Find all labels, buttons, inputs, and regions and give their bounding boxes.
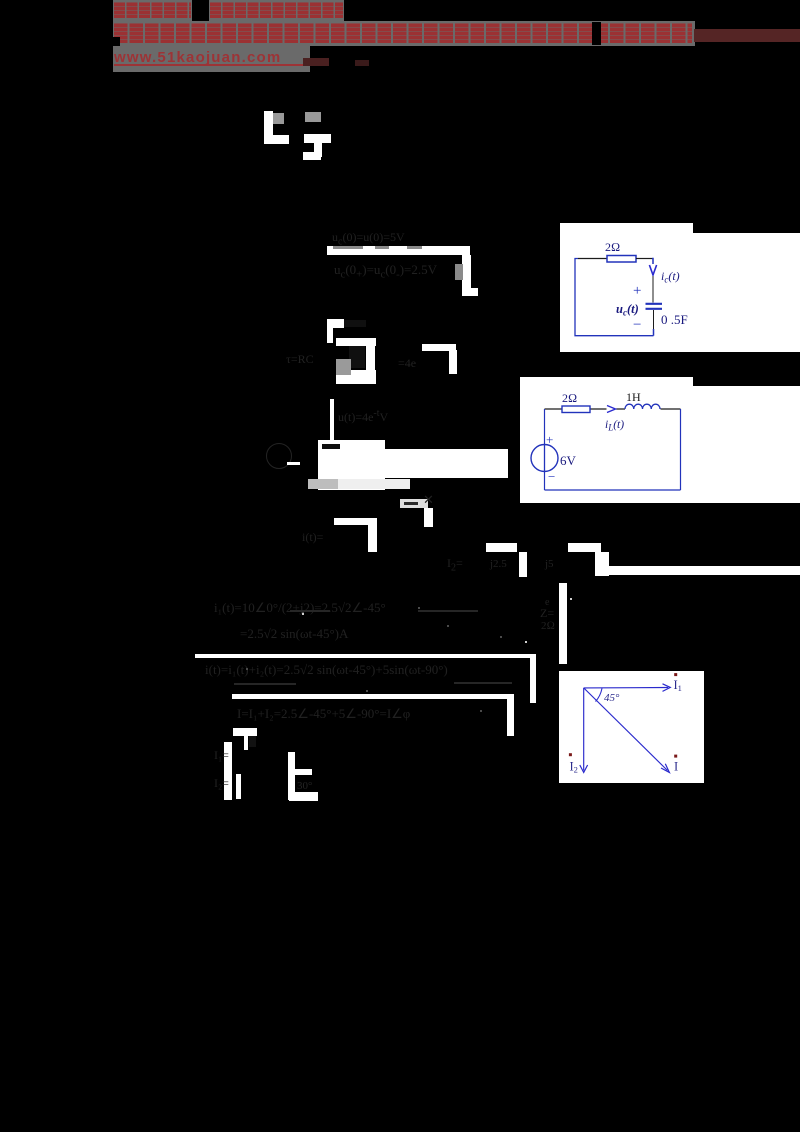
header highlight panel line3 (url) [113, 46, 310, 72]
white fragment W8 [334, 518, 377, 525]
ghost t=0 switch [400, 499, 428, 508]
figure 1 white background [560, 223, 800, 352]
wire left blue through source [544, 409, 546, 490]
label I with red dot [674, 755, 677, 758]
white fragment W13 line [232, 694, 514, 699]
ghost equation under W3 [334, 262, 437, 281]
wire right black segment [652, 276, 654, 303]
svg-text:+: + [546, 432, 553, 447]
current arrow [607, 406, 616, 413]
figure 2 white background [520, 377, 800, 503]
ghost I2 [447, 556, 463, 573]
header highlight panel line2 [113, 21, 695, 46]
svg-text:45°: 45° [604, 692, 620, 704]
ghost long equation row 2 [205, 662, 448, 678]
wire top black segments [545, 408, 681, 410]
angle arc 45 [596, 688, 603, 701]
white fragment W2 [305, 112, 321, 123]
ghost long equation row 3 [237, 706, 410, 722]
label I2 with red dot [569, 753, 572, 756]
white fragment W11 vertical bar [559, 583, 567, 664]
current arrow ic [649, 265, 656, 275]
maroon redacted band line2 [694, 29, 800, 42]
figure 2 top-right black notch [693, 377, 800, 386]
svg-text:uc(t): uc(t) [616, 302, 639, 318]
resistor R 2ohm [562, 406, 590, 413]
wire left+bottom blue loop [575, 259, 654, 336]
inductor L coil [625, 404, 660, 409]
white fragment W9 [486, 543, 517, 552]
wire right blue [680, 409, 682, 490]
phasor I diagonal arrow [584, 688, 668, 771]
white fragment W10 [568, 543, 601, 552]
ghost long equation row 1 [214, 600, 386, 616]
header highlight panel line1 run A [113, 0, 192, 21]
svg-text:iL(t): iL(t) [605, 419, 624, 433]
capacitor C plates [646, 304, 663, 309]
specks [302, 612, 304, 614]
svg-text:2Ω: 2Ω [562, 391, 577, 405]
white dash in ghost circle [287, 462, 300, 465]
svg-text:ic(t): ic(t) [661, 269, 680, 285]
resistor R 2ohm [607, 256, 636, 263]
phasor I2 vertical arrow [583, 688, 585, 771]
phasor I1 horizontal arrow [584, 687, 668, 689]
ghost tau [286, 352, 314, 367]
white fragment W7 big block [318, 440, 385, 490]
svg-text:2Ω: 2Ω [605, 240, 620, 254]
white fragment W5 [422, 344, 456, 351]
svg-text:I: I [674, 760, 678, 774]
svg-text:0 .5F: 0 .5F [661, 312, 688, 327]
figure 3 white background [559, 671, 704, 783]
wire below capacitor black [653, 310, 655, 329]
white fragment W3 bar+corner [327, 246, 470, 255]
svg-text:+: + [633, 283, 641, 299]
white fragment W4 [327, 319, 344, 328]
ghost source circle [266, 443, 292, 469]
white fragment W1 L-shape [264, 111, 273, 144]
white fragment W6 vertical [330, 399, 335, 442]
wire top black segment right [636, 258, 652, 260]
wire top black segment left [578, 258, 607, 260]
white fragment W12 line [195, 654, 535, 658]
label I1 with red dot [674, 673, 677, 676]
voltage source circle 6V [531, 445, 558, 472]
svg-text:−: − [633, 317, 641, 333]
wire bottom blue [545, 489, 681, 491]
wire top-right corner blue [652, 259, 653, 265]
white fragments W14 group [233, 728, 257, 736]
svg-text:1H: 1H [626, 390, 641, 404]
svg-text:6V: 6V [560, 453, 577, 468]
figure 1 top-right black notch [693, 223, 800, 233]
ghost equation above W3 [332, 230, 405, 247]
header highlight panel line1 run B [209, 0, 344, 21]
svg-text:−: − [548, 469, 555, 484]
wire bottom-right blue stub [653, 329, 655, 336]
